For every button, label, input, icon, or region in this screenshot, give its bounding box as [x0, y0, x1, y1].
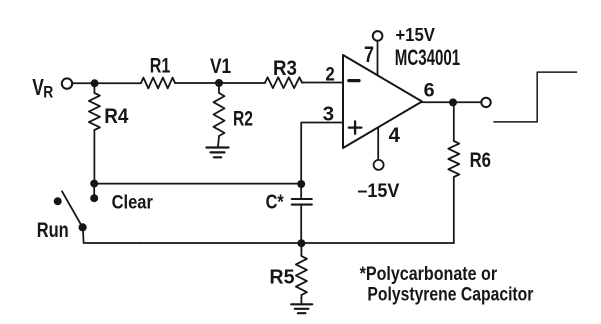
node at VR/R4 junction — [91, 79, 99, 87]
ground below R5 — [291, 304, 312, 313]
svg-text:*Polycarbonate or: *Polycarbonate or — [360, 264, 498, 285]
svg-text:C*: C* — [266, 192, 284, 214]
svg-text:4: 4 — [389, 123, 400, 147]
switch pole — [79, 223, 87, 231]
node capacitor top — [297, 180, 305, 188]
node output — [449, 98, 457, 106]
svg-text:R5: R5 — [269, 267, 294, 289]
svg-text:Clear: Clear — [112, 192, 154, 213]
node bottom rail / C and R5 — [297, 239, 305, 247]
switch run contact — [54, 197, 62, 205]
op-amp plus sign — [349, 121, 362, 133]
svg-text:Run: Run — [37, 219, 69, 242]
switch clear contact — [90, 194, 98, 202]
wire capacitor to bottom rail — [300, 206, 302, 243]
ground below R2 — [207, 148, 229, 158]
label VR — [32, 74, 53, 102]
resistor R3 — [265, 77, 302, 88]
svg-text:3: 3 — [323, 103, 335, 125]
svg-text:R2: R2 — [233, 107, 253, 130]
svg-text:Polystyrene Capacitor: Polystyrene Capacitor — [367, 285, 533, 306]
svg-text:R: R — [43, 83, 53, 102]
resistor R2 — [214, 87, 225, 147]
waveform output step — [494, 72, 577, 122]
wire VR to R1 — [72, 82, 141, 84]
resistor R5 — [296, 247, 307, 304]
wire R3 to op-amp pin 2 — [302, 82, 343, 84]
node clear junction — [90, 180, 98, 188]
wire pin 3 — [301, 123, 343, 184]
svg-text:MC34001: MC34001 — [395, 45, 460, 70]
wire V1 to R3 — [219, 82, 265, 84]
wire pin 6 output — [422, 101, 481, 103]
svg-text:R3: R3 — [273, 57, 297, 80]
svg-text:6: 6 — [424, 80, 435, 101]
svg-text:–15V: –15V — [357, 181, 399, 202]
wire node to capacitor — [300, 184, 302, 198]
terminal -15V — [374, 160, 384, 170]
wire R4 to clear junction — [93, 130, 95, 184]
svg-text:+15V: +15V — [395, 24, 435, 45]
capacitor C* — [292, 199, 312, 205]
pin 7 wire — [377, 41, 379, 75]
terminal VR input — [62, 78, 72, 88]
wire clear line — [94, 183, 301, 185]
wire bottom rail — [140, 242, 454, 244]
op-amp minus sign — [349, 79, 359, 82]
terminal +15V — [373, 31, 383, 41]
svg-text:R1: R1 — [150, 55, 171, 78]
node V1 — [215, 79, 223, 87]
wire R1 to V1 — [175, 82, 219, 84]
resistor R4 — [89, 87, 100, 130]
svg-text:2: 2 — [325, 64, 334, 85]
svg-text:V1: V1 — [210, 55, 231, 78]
wire clear junction to clear contact — [93, 184, 95, 199]
svg-text:R6: R6 — [470, 149, 491, 172]
terminal output — [481, 98, 490, 107]
svg-text:7: 7 — [364, 42, 374, 67]
wire pole to bottom rail — [83, 230, 140, 243]
pin 4 wire — [377, 127, 379, 159]
wire output node to R6 — [453, 106, 455, 141]
wire R6 to bottom rail — [453, 177, 455, 243]
switch arm — [62, 191, 83, 227]
resistor R1 — [141, 78, 175, 89]
svg-text:R4: R4 — [104, 105, 128, 128]
op-amp U1 MC34001 — [343, 55, 422, 148]
resistor R6 — [448, 141, 459, 177]
